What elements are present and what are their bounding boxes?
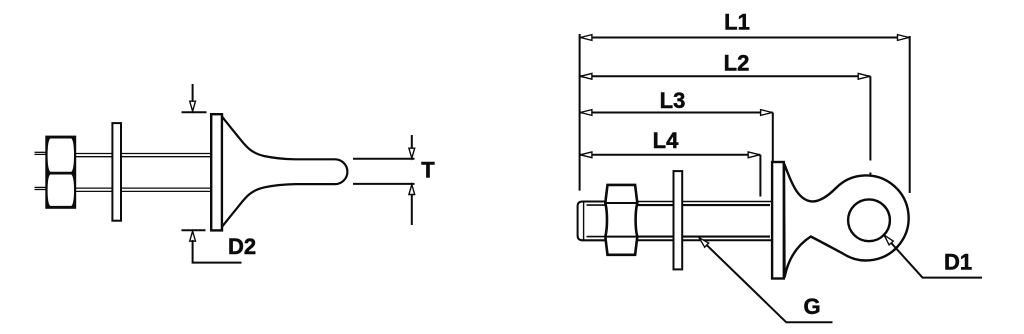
flange disc (edge view) [772,162,784,279]
shaft (threaded rod, double-line edges) [581,202,772,241]
T reference lines (blade thickness) [353,159,415,184]
svg-text:T: T [421,158,435,183]
L3 right extension line [772,113,774,162]
L2 dimension line [580,73,871,79]
L3 dimension line [580,110,773,116]
svg-text:D2: D2 [228,234,256,259]
L2 right extension line (to eye centre, dashed end) [869,76,871,193]
svg-text:L2: L2 [724,50,750,75]
thread stub lines left of nut [35,152,48,189]
trumpet bell + flat blade with rounded tip [222,117,347,227]
L1 dimension line [580,35,910,41]
washer plate [674,171,683,269]
T top arrow [409,135,415,158]
svg-text:L4: L4 [653,128,679,153]
shaft (threaded rod, double-line edges) [76,154,213,192]
D1 leader with arrow [884,235,982,277]
L1 right extension line [909,36,911,193]
flange disc (edge view) [211,114,222,230]
G leader with arrow [699,238,832,322]
eye body (swoosh neck + ring) [784,164,909,278]
L4 right extension line [759,155,761,197]
svg-text:G: G [803,294,820,319]
svg-text:D1: D1 [944,250,972,275]
D2 dimension (flange diameter) [182,230,242,262]
bolt end stub (chamfered) [578,202,606,241]
hex nut (side view, two chamfer barrels) [45,136,76,209]
eye hole D1 [848,199,890,241]
svg-text:L1: L1 [724,9,750,34]
washer plate [112,123,121,221]
hex nut (face view with chamfer waist) [605,185,637,255]
svg-text:L3: L3 [660,88,686,113]
left common extension line [579,34,581,191]
T bottom arrow [409,185,415,226]
flange top arrow [182,84,207,112]
L4 dimension line [580,152,761,158]
